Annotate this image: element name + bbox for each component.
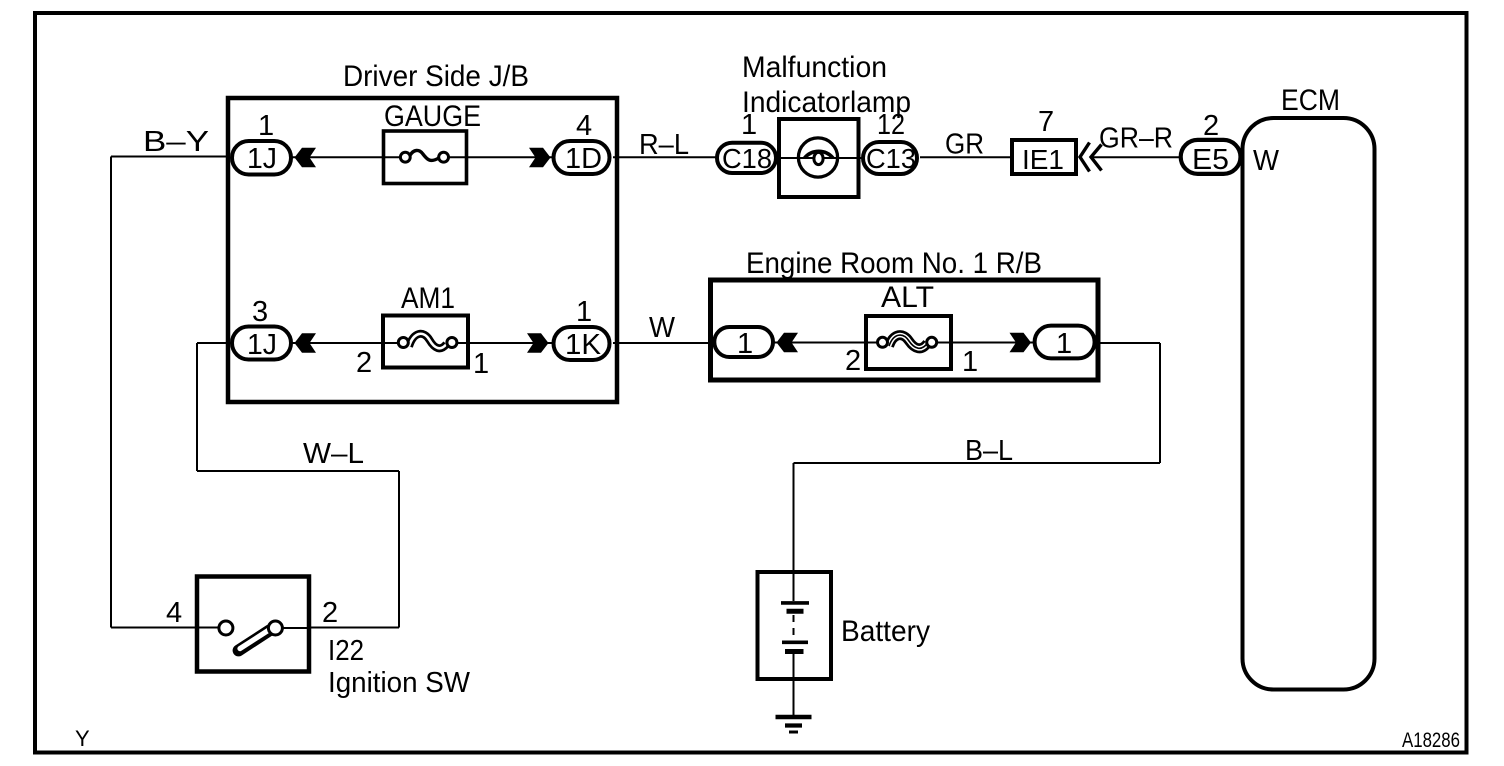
arrow into R/B right connector (points right) xyxy=(1010,333,1032,353)
wire B-Y segment to ignition switch pin 4 xyxy=(111,627,196,629)
svg-text:3: 3 xyxy=(252,296,268,328)
svg-text:C18: C18 xyxy=(722,143,772,174)
arrow into 1J pin 1 (points left) xyxy=(295,148,317,168)
wire through indicator lamp xyxy=(776,157,862,159)
svg-text:1: 1 xyxy=(576,296,592,328)
svg-text:ALT: ALT xyxy=(881,281,934,314)
wire W (1K to Engine Room R/B) xyxy=(613,342,715,344)
wire GR-R (chevron to E5) xyxy=(1091,156,1181,158)
junction connector IE1 xyxy=(1012,140,1076,175)
svg-text:AM1: AM1 xyxy=(401,282,455,315)
ground xyxy=(776,717,812,732)
wire W-L horizontal segment xyxy=(197,470,399,472)
title Malfunction Indicatorlamp xyxy=(742,51,911,119)
svg-text:I22: I22 xyxy=(328,635,364,667)
svg-text:IE1: IE1 xyxy=(1022,144,1064,175)
arrow into 1D (points right) xyxy=(529,148,551,168)
connector 1 (left of R/B) xyxy=(714,327,773,360)
svg-text:1J: 1J xyxy=(247,143,277,175)
svg-text:A18286: A18286 xyxy=(1402,729,1460,752)
svg-text:1: 1 xyxy=(1056,328,1072,360)
wire B-L vertical drop segment xyxy=(1159,343,1161,463)
wire B-Y vertical riser segment xyxy=(110,157,112,628)
svg-text:GR–R: GR–R xyxy=(1099,123,1173,155)
svg-text:W: W xyxy=(1253,145,1280,177)
battery xyxy=(758,572,832,679)
svg-text:1: 1 xyxy=(962,346,978,378)
fusible link ALT xyxy=(866,316,951,369)
chevron splice arrows after IE1 xyxy=(1080,143,1102,172)
wire AM1 fuse to 1K xyxy=(456,342,553,344)
svg-text:R–L: R–L xyxy=(639,129,689,161)
wire 1J pin3 to AM1 fuse xyxy=(292,342,399,344)
fusible link AM1 xyxy=(383,316,468,368)
wire W-L segment to ignition switch pin 2 xyxy=(310,627,399,629)
wire battery negative to ground xyxy=(793,654,795,715)
wire W-L vertical segment xyxy=(196,343,198,471)
wire R/B left connector to ALT link xyxy=(774,342,878,344)
svg-text:W: W xyxy=(649,312,676,344)
svg-text:Ignition SW: Ignition SW xyxy=(328,667,471,699)
relay block box: Engine Room No. 1 R/B xyxy=(711,280,1099,380)
svg-text:B–L: B–L xyxy=(965,435,1013,467)
wire ALT link to R/B right connector xyxy=(936,342,1036,344)
svg-text:2: 2 xyxy=(356,347,372,379)
svg-text:C13: C13 xyxy=(866,143,916,174)
wire B-L segment to battery positive xyxy=(793,463,795,572)
svg-text:1: 1 xyxy=(473,348,489,380)
svg-text:Driver Side J/B: Driver Side J/B xyxy=(343,60,529,93)
wire GAUGE fuse to 1D xyxy=(447,156,553,158)
svg-text:1J: 1J xyxy=(247,329,277,361)
svg-text:Malfunction: Malfunction xyxy=(742,51,887,84)
wire B-Y horizontal segment (1J pin 1 to left riser) xyxy=(111,156,230,158)
svg-text:4: 4 xyxy=(166,597,182,629)
wire B-L horizontal segment xyxy=(794,462,1161,464)
ECM box xyxy=(1243,118,1375,690)
connector 1K xyxy=(554,327,610,361)
fuse GAUGE xyxy=(384,131,467,184)
connector E5 xyxy=(1181,140,1241,176)
ignition switch I22 xyxy=(197,577,309,672)
svg-text:1: 1 xyxy=(258,110,274,142)
connector C13 xyxy=(863,142,917,174)
svg-text:Y: Y xyxy=(75,726,90,751)
wire GR (C13 to IE1) xyxy=(920,156,1011,158)
svg-text:1D: 1D xyxy=(565,143,602,175)
connector 1D xyxy=(554,141,610,175)
junction block box: Driver Side J/B xyxy=(228,98,617,402)
wire W-L vertical drop segment xyxy=(398,471,400,628)
wire 1J pin1 to GAUGE fuse xyxy=(292,156,401,158)
svg-text:12: 12 xyxy=(877,109,905,141)
connector 1 (right of R/B) xyxy=(1035,326,1095,360)
wire W-L stub from 1J pin 3 xyxy=(197,342,231,344)
svg-text:2: 2 xyxy=(322,597,338,629)
arrow into 1K (points right) xyxy=(527,333,549,353)
connector C18 xyxy=(717,143,776,174)
arrow into R/B left connector (points left) xyxy=(777,333,799,353)
svg-text:1K: 1K xyxy=(565,329,602,361)
svg-text:Engine Room No. 1 R/B: Engine Room No. 1 R/B xyxy=(746,247,1042,280)
svg-text:2: 2 xyxy=(1203,110,1219,142)
svg-text:E5: E5 xyxy=(1192,144,1229,176)
svg-text:7: 7 xyxy=(1038,106,1054,138)
svg-text:GR: GR xyxy=(945,129,984,161)
svg-text:GAUGE: GAUGE xyxy=(384,100,481,133)
svg-text:4: 4 xyxy=(576,110,592,142)
lamp: malfunction indicator lamp xyxy=(779,119,859,197)
arrow into 1J pin 3 (points left) xyxy=(295,333,317,353)
connector 1J (row 2) xyxy=(232,327,291,362)
wire B-L segment from R/B right connector xyxy=(1094,342,1160,344)
svg-text:1: 1 xyxy=(737,328,753,360)
svg-text:ECM: ECM xyxy=(1281,84,1340,117)
svg-text:Battery: Battery xyxy=(841,615,930,648)
connector 1J (row 1) xyxy=(232,141,291,175)
svg-text:W–L: W–L xyxy=(303,438,364,470)
svg-text:B–Y: B–Y xyxy=(143,126,209,158)
wire R-L (1D to C18) xyxy=(613,156,716,158)
svg-text:2: 2 xyxy=(845,345,861,377)
